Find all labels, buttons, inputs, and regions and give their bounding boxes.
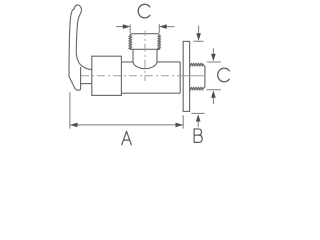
dim C right: leader lines [212, 48, 214, 104]
arrow C top right [159, 24, 166, 29]
top thread connector body [130, 34, 160, 50]
arrow C right bottom [211, 90, 216, 97]
right stub upper thread [190, 64, 203, 66]
vertical centerline [144, 31, 146, 81]
dim C top: leader lines [116, 26, 175, 28]
right thread stub end [203, 65, 205, 89]
lever foot [69, 67, 81, 90]
wall flange plate [183, 41, 189, 111]
dim B: ticks [191, 41, 204, 113]
dim A: extension lines [70, 92, 183, 128]
arrow A right [176, 123, 183, 128]
arrow B bottom [196, 114, 201, 121]
lever handle blade [69, 5, 92, 77]
dim C top: extension lines [130, 24, 159, 33]
stem stub bottom line [81, 83, 92, 85]
arrow B top [196, 33, 201, 40]
arrow C top left [123, 24, 130, 29]
inlet neck and dome [133, 49, 157, 68]
right stub lower thread [190, 88, 203, 90]
label C top [138, 4, 150, 18]
label B [194, 129, 202, 142]
valve body [92, 56, 122, 95]
horizontal centerline [81, 75, 183, 77]
dim A: dimension line [70, 124, 183, 126]
top thread right flank [158, 35, 160, 49]
top thread left flank [129, 35, 131, 49]
horizontal pipe outline [121, 62, 180, 93]
label C right [218, 68, 230, 82]
dim C right: ticks [206, 62, 221, 90]
label A [122, 131, 132, 145]
arrow A left [70, 123, 77, 128]
arrow C right top [211, 54, 216, 61]
dim B: leader lines [197, 26, 199, 128]
